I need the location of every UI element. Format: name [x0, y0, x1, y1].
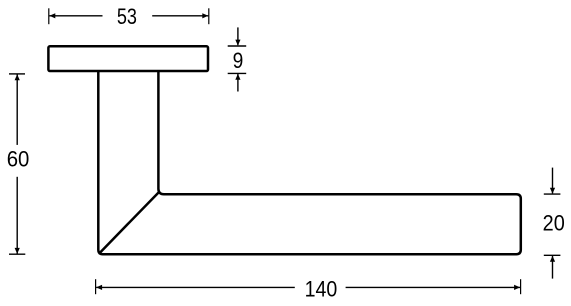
- svg-text:60: 60: [7, 147, 30, 172]
- dim 9 top bar: [228, 45, 247, 47]
- svg-text:20: 20: [543, 210, 565, 235]
- dim 9 top arrow: [235, 27, 240, 45]
- dim 140 left tick: [95, 279, 97, 294]
- dim 53 left tick: [48, 8, 50, 24]
- dim 9 bottom arrow: [235, 74, 240, 92]
- dim 53 left line: [49, 13, 102, 18]
- svg-text:140: 140: [305, 277, 338, 302]
- dim 53 right tick: [208, 8, 210, 24]
- svg-text:53: 53: [117, 4, 137, 29]
- dim 60 top bar: [9, 73, 25, 75]
- dim 60 upper line: [15, 74, 20, 145]
- dim 53 right line: [152, 13, 208, 18]
- dim 140 left line: [96, 285, 295, 290]
- dim 20 top arrow: [550, 168, 555, 194]
- dim 20 bottom arrow: [550, 256, 555, 279]
- dim 60 bottom bar: [9, 253, 25, 255]
- rose plate outline: [48, 46, 208, 71]
- bend edge line: [100, 192, 158, 252]
- dim 140 right line: [346, 285, 520, 290]
- dim 20 top bar: [544, 193, 561, 195]
- lever handle outline: [98, 72, 521, 255]
- dim 140 right tick: [520, 279, 522, 294]
- dim 9 bottom bar: [228, 72, 247, 74]
- dim 60 lower line: [15, 177, 20, 254]
- dim 20 bottom bar: [544, 254, 561, 256]
- svg-text:9: 9: [233, 49, 244, 74]
